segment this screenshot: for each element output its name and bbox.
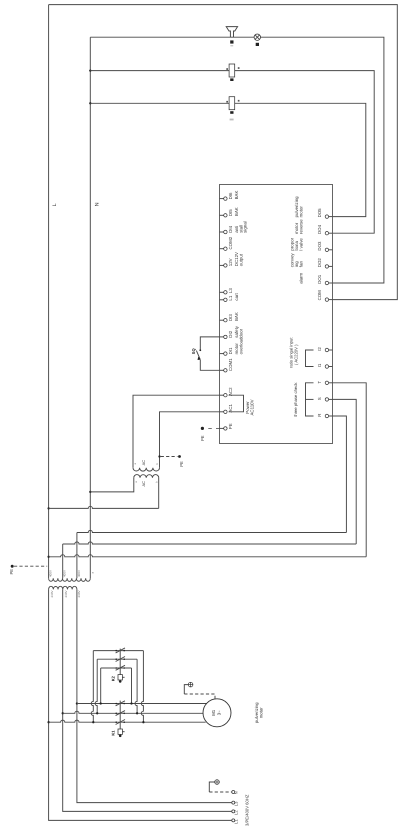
svg-text:three phase check: three phase check xyxy=(293,382,298,417)
svg-text:L3: L3 xyxy=(228,288,233,293)
wire T check to L1 (hops) xyxy=(333,383,367,557)
wire: alarm row (horn+lamp) N to DO1 xyxy=(90,37,384,283)
wire T1 primary right to L1 (hop over N) xyxy=(158,478,160,509)
svg-text:cart: cart xyxy=(234,293,239,301)
terminal COM (right) xyxy=(329,299,333,301)
terminal I1 (right) xyxy=(329,366,333,368)
svg-text:400V: 400V xyxy=(63,570,67,577)
wire T1 primary left to N xyxy=(90,478,134,492)
svg-text:PE: PE xyxy=(228,423,233,429)
wire DI2 to safety door switch xyxy=(200,337,219,350)
contactor K2 reversing bridge top1 xyxy=(93,650,143,652)
terminal AC2 (left) xyxy=(220,394,224,396)
svg-text:L3: L3 xyxy=(234,801,239,806)
PE tap for motor xyxy=(188,682,193,687)
PE input symbol at left xyxy=(11,565,14,568)
svg-text:alarm: alarm xyxy=(298,272,303,283)
lamp HL (alarm) xyxy=(254,34,260,40)
svg-text:L: L xyxy=(52,203,58,206)
svg-text:AC: AC xyxy=(141,460,146,466)
node: PE tap on transformer secondary xyxy=(158,455,160,457)
svg-text:fan: fan xyxy=(298,261,303,268)
terminal PE (left) xyxy=(220,427,224,429)
svg-text:reverse: reverse xyxy=(298,219,303,234)
horn HA (alarm) xyxy=(226,27,237,38)
svg-text:signal: signal xyxy=(243,221,248,232)
terminal DO5 (right) xyxy=(329,216,333,218)
svg-text:DO4: DO4 xyxy=(317,224,322,234)
terminal L3 (supply) xyxy=(232,801,235,804)
node: row2 tap on N xyxy=(89,69,91,71)
svg-text:DI1: DI1 xyxy=(228,347,233,354)
controller box U1 xyxy=(220,185,333,444)
wire: L1 lower section to bottom terminal L1 xyxy=(49,589,232,820)
terminal S (right) xyxy=(329,398,333,400)
dashed PE to box PE terminal xyxy=(204,427,219,429)
svg-text:( AC220V ): ( AC220V ) xyxy=(293,344,298,365)
svg-text:PE: PE xyxy=(9,569,14,575)
svg-text:DO1: DO1 xyxy=(317,274,322,284)
svg-text:400V: 400V xyxy=(77,570,81,577)
wire AC1 to control transformer xyxy=(160,412,220,468)
svg-text:230V: 230V xyxy=(77,590,81,597)
switch SQ safety door xyxy=(199,349,201,351)
svg-text:output: output xyxy=(238,253,243,266)
terminal DI2 (left) xyxy=(220,336,224,338)
svg-text:S: S xyxy=(317,397,322,400)
wire: motor branch line 3 from L1 xyxy=(49,720,206,722)
svg-text:M1: M1 xyxy=(211,709,216,716)
K1 coil label xyxy=(230,111,233,114)
wire: K2 coil row N to DO4 xyxy=(90,71,374,234)
node: N/control-transformer junction xyxy=(89,491,91,493)
svg-text:L1: L1 xyxy=(234,819,239,824)
svg-text:230V: 230V xyxy=(50,590,54,597)
svg-text:DO2: DO2 xyxy=(317,258,322,268)
svg-text:400V: 400V xyxy=(49,570,53,577)
svg-text:BAK: BAK xyxy=(234,207,239,216)
contactor coil K1 (pulverizing motor) on row3 xyxy=(229,97,235,110)
contactor K1 contacts on motor lines xyxy=(115,703,117,705)
svg-text:T: T xyxy=(317,381,322,384)
terminal N (supply) xyxy=(232,791,235,794)
motor M1 pulverizing motor xyxy=(203,699,231,727)
terminal L1 (supply) xyxy=(232,819,235,822)
bracket three phase check R/S/T xyxy=(306,383,314,416)
transformer T1 secondary coil xyxy=(133,468,160,471)
contactor coil K2 (motor reverse) on row2 xyxy=(229,64,235,77)
terminal DO3 (right) xyxy=(329,249,333,251)
svg-text:DI6: DI6 xyxy=(228,192,233,199)
transformer T2 secondary coil (3ph) xyxy=(49,578,91,581)
svg-text:AC2: AC2 xyxy=(228,387,233,396)
svg-text:K2: K2 xyxy=(111,675,116,681)
PE dashed tap at transformer T1 xyxy=(161,456,178,458)
svg-text:SQ: SQ xyxy=(191,348,196,354)
svg-text:DI4: DI4 xyxy=(228,225,233,232)
svg-text:N: N xyxy=(234,791,239,794)
terminal L1 (left) xyxy=(220,299,224,301)
K2 coil label xyxy=(230,78,233,81)
wire: L2 phase vertical xyxy=(62,544,64,578)
svg-text:AC: AC xyxy=(141,481,146,487)
svg-text:I1: I1 xyxy=(317,363,322,367)
bracket ratio signal input I1/I2 xyxy=(306,350,314,367)
terminal DO2 (right) xyxy=(329,265,333,267)
node: L1/motor-branch junction xyxy=(47,721,49,723)
terminal AC1 (left) xyxy=(220,411,224,413)
svg-text:AC1: AC1 xyxy=(228,404,233,413)
terminal DI5 (left) xyxy=(220,214,224,216)
K2 left leg inner (to line1) xyxy=(100,668,102,704)
terminal DI3 (left) xyxy=(220,319,224,321)
node: row3 tap on N xyxy=(89,102,91,104)
svg-text:L2: L2 xyxy=(234,810,239,815)
K2 mechanical link xyxy=(119,649,121,675)
terminal COM1 (left) xyxy=(220,369,224,371)
svg-text:DO5: DO5 xyxy=(317,208,322,218)
contactor K2 bridge top2 xyxy=(97,658,137,660)
svg-text:DI3: DI3 xyxy=(228,314,233,321)
lamp label xyxy=(256,43,259,46)
svg-text:COM2: COM2 xyxy=(228,236,233,249)
contactor K2 bridge top3 xyxy=(101,667,132,669)
svg-text:R: R xyxy=(317,414,322,417)
wire: K1 coil row N to DO5 xyxy=(90,103,366,216)
terminal COM2 (left) xyxy=(220,248,224,250)
K2 right leg middle (to line2) xyxy=(135,659,137,713)
wire: COM terminal to L1 rail via top xyxy=(49,5,398,300)
node: L3 motor branch tap xyxy=(76,702,78,704)
K1 mechanical link xyxy=(119,701,121,729)
K2 right leg outer (to line3) xyxy=(141,651,143,723)
wire: L1 phase rail (left vertical) xyxy=(48,5,50,579)
svg-text:3/PE/400V 60HZ: 3/PE/400V 60HZ xyxy=(244,794,249,826)
node: L1/transformer-primary junction xyxy=(47,507,49,509)
transformer T1 primary coil xyxy=(134,475,159,478)
terminal L2 (supply) xyxy=(232,810,235,813)
svg-text:DO3: DO3 xyxy=(317,241,322,251)
terminal I2 (right) xyxy=(329,349,333,351)
svg-text:BAK: BAK xyxy=(234,312,239,321)
terminal DI1 (left) xyxy=(220,353,224,355)
dashed PE to transformer T2 xyxy=(14,565,47,567)
wire: L3 phase vertical xyxy=(76,533,78,579)
svg-text:PE: PE xyxy=(179,461,184,467)
svg-text:3~: 3~ xyxy=(217,710,222,715)
wire: motor branch line 1 from L3 xyxy=(77,703,208,705)
wire S check to L2 (hops) xyxy=(333,399,357,544)
svg-text:PE: PE xyxy=(200,435,205,441)
node: L1/T-check junction xyxy=(47,556,49,558)
wire R check to L3 (hop over N) xyxy=(333,416,347,533)
svg-text:AC110V: AC110V xyxy=(250,399,255,415)
wire: motor branch line 2 from L2 xyxy=(63,711,203,713)
svg-text:motor: motor xyxy=(259,707,264,719)
svg-text:DI5: DI5 xyxy=(228,209,233,216)
wire switch to COM1 xyxy=(200,360,219,371)
transformer T2 primary coil (3ph) xyxy=(49,586,77,589)
svg-text:12V: 12V xyxy=(228,258,233,266)
svg-text:DI2: DI2 xyxy=(228,330,233,337)
terminal T (right) xyxy=(329,382,333,384)
horn label xyxy=(230,40,233,43)
terminal L3 (left) xyxy=(220,291,224,293)
svg-text:COM1: COM1 xyxy=(228,358,233,371)
svg-text:COM: COM xyxy=(317,290,322,301)
svg-text:motor: motor xyxy=(298,206,303,218)
svg-text:I2: I2 xyxy=(317,347,322,351)
K2 right leg inner (to line1) xyxy=(131,668,133,704)
node: L2 motor branch tap xyxy=(62,712,64,714)
svg-text:K1: K1 xyxy=(111,730,116,736)
svg-text:l valve: l valve xyxy=(298,238,303,251)
wire: N rail from alarm row down to transformer xyxy=(89,37,91,578)
PE/N input symbol bottom xyxy=(215,780,220,785)
svg-text:N: N xyxy=(95,202,101,206)
K2 left leg middle (to line2) xyxy=(95,659,97,713)
wire AC2 to control transformer xyxy=(133,395,220,468)
K2 left leg outer (to line3) xyxy=(91,651,93,723)
terminal DO4 (right) xyxy=(329,232,333,234)
terminal DI4 (left) xyxy=(220,231,224,233)
svg-text:L1: L1 xyxy=(228,295,233,300)
terminal DO1 (right) xyxy=(329,282,333,284)
terminal R (right) xyxy=(329,415,333,417)
svg-text:230V: 230V xyxy=(64,590,68,597)
svg-text:door: door xyxy=(238,328,243,337)
terminal 12V (left) xyxy=(220,264,224,266)
bracket power AC110V for AC1/AC2 xyxy=(229,395,244,412)
terminal DI6 (left) xyxy=(220,198,224,200)
svg-text:overload: overload xyxy=(238,337,243,354)
svg-text:BAK: BAK xyxy=(234,191,239,200)
dashed N-PE link to terminal N xyxy=(209,791,231,793)
